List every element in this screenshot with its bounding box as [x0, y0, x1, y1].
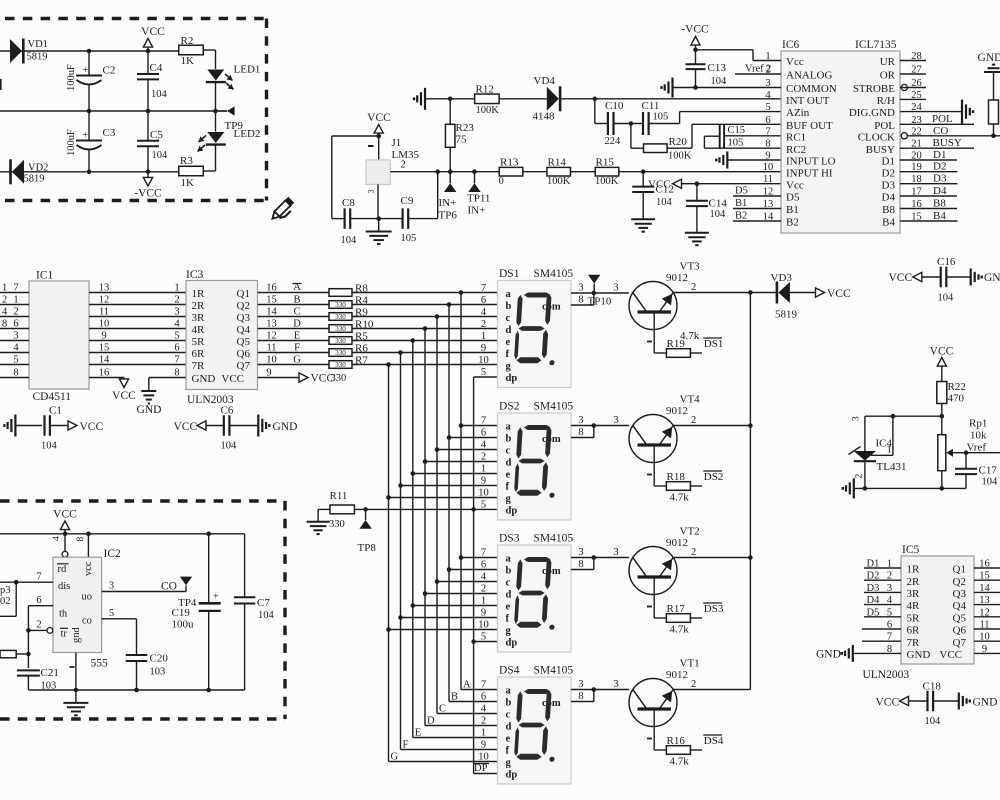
- svg-text:vcc: vcc: [83, 561, 94, 576]
- svg-text:1R: 1R: [192, 288, 206, 300]
- capacitor C15 105: [719, 124, 721, 149]
- svg-text:4: 4: [52, 536, 62, 541]
- svg-text:7: 7: [765, 126, 770, 137]
- IC2 pin2 tr wire with circle: [47, 628, 53, 634]
- svg-text:R22: R22: [948, 381, 966, 393]
- svg-text:VD3: VD3: [771, 272, 793, 284]
- svg-text:VCC: VCC: [876, 697, 900, 709]
- svg-text:C16: C16: [937, 256, 956, 268]
- svg-text:Q7: Q7: [237, 360, 251, 372]
- svg-text:J1: J1: [392, 137, 402, 149]
- wire com to transistor base: [594, 689, 629, 691]
- svg-text:10: 10: [979, 632, 990, 643]
- potentiometer Rp1 10k: [938, 435, 946, 471]
- svg-text:6: 6: [481, 560, 486, 571]
- svg-text:IC1: IC1: [36, 270, 54, 282]
- svg-text:6: 6: [481, 295, 486, 306]
- IC6 pin1 wire to -VCC node: [753, 60, 781, 62]
- svg-text:B2: B2: [786, 217, 799, 229]
- svg-text:tr: tr: [61, 629, 68, 640]
- com pins 3/8 join: [571, 425, 594, 427]
- svg-text:F: F: [403, 740, 409, 751]
- IC6 pin15 B4 wire: [900, 220, 958, 222]
- collector bus vertical: [749, 293, 751, 690]
- svg-text:ULN2003: ULN2003: [863, 669, 910, 681]
- IC6 pin2 Vref stub: [735, 73, 781, 75]
- svg-text:1: 1: [887, 445, 892, 456]
- svg-text:104: 104: [41, 441, 58, 452]
- wire VCC node to J1 and left loop: [376, 134, 381, 139]
- resistor R22 470: [937, 382, 947, 404]
- svg-text:com: com: [542, 566, 561, 577]
- svg-text:R3: R3: [180, 155, 193, 167]
- IC6 right pin wires 28-25: [900, 60, 926, 62]
- display DS3 SM4105 body: [498, 545, 572, 652]
- svg-text:ICL7135: ICL7135: [855, 39, 897, 51]
- IC2 pin5 co wire to C20: [102, 618, 137, 620]
- svg-text:3: 3: [109, 581, 114, 592]
- svg-text:6: 6: [174, 343, 179, 354]
- display DS2 SM4105 body: [498, 413, 572, 520]
- LED2: [215, 111, 217, 132]
- svg-text:CO: CO: [933, 125, 948, 137]
- svg-text:470: 470: [948, 393, 965, 405]
- svg-text:f: f: [506, 482, 510, 493]
- svg-text:B8: B8: [933, 198, 946, 210]
- svg-text:R2: R2: [181, 35, 194, 47]
- svg-text:10: 10: [763, 162, 774, 173]
- svg-text:4.7k: 4.7k: [670, 756, 690, 768]
- svg-text:a: a: [506, 289, 512, 300]
- svg-text:+: +: [83, 65, 89, 76]
- svg-text:105: 105: [728, 138, 744, 149]
- IC2 pin6 th wire: [28, 605, 53, 607]
- svg-text:B2: B2: [735, 211, 747, 222]
- svg-text:SM4105: SM4105: [534, 401, 574, 413]
- svg-text:7: 7: [481, 680, 486, 691]
- dp stub DS3: [474, 641, 498, 643]
- svg-text:3: 3: [613, 283, 618, 294]
- svg-text:8: 8: [578, 295, 583, 306]
- wire R15 to IC6 INPUT HI: [619, 171, 781, 173]
- svg-text:1K: 1K: [181, 55, 195, 67]
- svg-text:+: +: [213, 592, 219, 603]
- svg-text:R/H: R/H: [877, 95, 895, 107]
- capacitor C21 103: [17, 669, 40, 671]
- svg-text:B8: B8: [882, 204, 895, 216]
- svg-text:15: 15: [979, 571, 990, 582]
- svg-text:1: 1: [887, 559, 892, 570]
- svg-text:7R: 7R: [907, 637, 921, 649]
- wire +rail from VD1 to VCC node: [0, 50, 148, 52]
- svg-text:7R: 7R: [192, 360, 206, 372]
- svg-text:4.7k: 4.7k: [670, 624, 690, 636]
- svg-text:11: 11: [763, 174, 773, 185]
- svg-text:a: a: [506, 554, 512, 565]
- capacitor C19 100u electrolytic: [208, 534, 210, 602]
- svg-text:9: 9: [481, 343, 486, 354]
- IC6 pin21 BUSY wire: [900, 147, 974, 149]
- capacitor C7 104: [244, 534, 246, 598]
- svg-text:d: d: [506, 722, 512, 733]
- svg-text:13: 13: [979, 595, 990, 606]
- svg-text:AZin: AZin: [786, 107, 810, 119]
- svg-text:330: 330: [335, 313, 346, 321]
- pin1 tick of J1: [368, 145, 374, 147]
- svg-text:rd: rd: [58, 564, 67, 575]
- transistor VT3 9012: [629, 282, 677, 330]
- svg-text:dp: dp: [506, 373, 518, 384]
- svg-text:6: 6: [481, 428, 486, 439]
- svg-text:2: 2: [481, 584, 486, 595]
- test point TP11 IN+: [472, 169, 477, 174]
- svg-text:SM4105: SM4105: [534, 665, 574, 677]
- svg-text:D1: D1: [882, 156, 895, 168]
- svg-text:d: d: [506, 325, 512, 336]
- svg-text:IN+: IN+: [439, 197, 457, 209]
- svg-text:dp: dp: [506, 770, 518, 781]
- svg-text:10: 10: [478, 620, 489, 631]
- svg-text:2: 2: [691, 679, 696, 690]
- svg-text:10: 10: [478, 355, 489, 366]
- svg-text:IC6: IC6: [782, 39, 800, 51]
- resistor R12 100K: [475, 94, 500, 104]
- capacitor C14 104 with ground: [696, 184, 698, 201]
- svg-text:R16: R16: [667, 735, 686, 747]
- svg-text:IN+: IN+: [468, 205, 486, 217]
- svg-text:9: 9: [481, 608, 486, 619]
- svg-text:a: a: [506, 686, 512, 697]
- IC6 pin17 D4 wire: [900, 195, 957, 197]
- svg-text:5819: 5819: [24, 174, 45, 185]
- svg-text:INPUT HI: INPUT HI: [786, 167, 833, 179]
- svg-text:Q1: Q1: [237, 288, 250, 300]
- svg-text:4: 4: [481, 440, 487, 451]
- svg-text:3: 3: [578, 415, 583, 426]
- svg-text:d: d: [506, 590, 512, 601]
- emitter wire of VT3: [653, 313, 655, 353]
- svg-text:c: c: [506, 578, 511, 589]
- capacitor C12 104 with ground: [642, 172, 644, 187]
- svg-text:1: 1: [174, 283, 179, 294]
- svg-text:7: 7: [887, 632, 892, 643]
- svg-text:C19: C19: [172, 607, 191, 619]
- svg-text:5819: 5819: [27, 52, 48, 63]
- resistor R17 4.7k: [666, 614, 690, 623]
- svg-text:2: 2: [13, 307, 18, 318]
- svg-text:C4: C4: [150, 62, 163, 74]
- diode VD4 4148: [547, 87, 559, 111]
- svg-text:C17: C17: [979, 465, 998, 477]
- svg-text:7: 7: [481, 548, 486, 559]
- svg-text:1: 1: [481, 596, 486, 607]
- segment bus stubs into DS3: [461, 557, 498, 559]
- IC3 output wires to resistors: [258, 292, 330, 294]
- svg-text:C10: C10: [605, 100, 624, 112]
- svg-text:-VCC: -VCC: [134, 188, 162, 200]
- svg-text:com: com: [542, 698, 561, 709]
- svg-text:R12: R12: [476, 84, 494, 96]
- svg-text:100K: 100K: [668, 151, 692, 162]
- svg-text:OR: OR: [880, 70, 896, 82]
- svg-text:7: 7: [481, 283, 486, 294]
- svg-text:dp: dp: [506, 506, 518, 517]
- svg-text:8: 8: [2, 319, 7, 330]
- wire R22 to Rp1: [941, 416, 943, 435]
- dashed border of power-supply section: [5, 17, 267, 20]
- svg-text:4R: 4R: [907, 600, 921, 612]
- IC6 pin20 D1 wire: [900, 159, 957, 161]
- svg-text:3: 3: [613, 679, 618, 690]
- svg-text:2: 2: [887, 571, 892, 582]
- svg-text:Q7: Q7: [953, 637, 967, 649]
- svg-text:5R: 5R: [907, 612, 921, 624]
- svg-text:COMMON: COMMON: [786, 83, 837, 95]
- svg-text:e: e: [506, 470, 511, 481]
- svg-text:VCC: VCC: [889, 272, 913, 284]
- svg-text:9012: 9012: [666, 405, 688, 417]
- svg-text:6R: 6R: [907, 625, 921, 637]
- svg-text:TP6: TP6: [439, 210, 458, 222]
- svg-text:330: 330: [335, 325, 346, 333]
- svg-text:2: 2: [481, 452, 486, 463]
- svg-text:GND: GND: [973, 697, 998, 709]
- test point TP6 IN+: [448, 169, 453, 174]
- svg-text:1: 1: [481, 331, 486, 342]
- svg-text:C13: C13: [708, 62, 727, 74]
- IC IC1 CD4511 body: [29, 281, 89, 389]
- wire R12 to VD4: [499, 98, 547, 100]
- emitter wire of VT4: [653, 446, 655, 486]
- svg-text:B1: B1: [735, 198, 747, 209]
- svg-text:VCC: VCC: [221, 373, 244, 385]
- collector wire of VT4: [673, 425, 750, 427]
- svg-text:GND: GND: [816, 649, 841, 661]
- DS2 seven-segment digit: [514, 425, 559, 498]
- svg-text:5: 5: [481, 632, 486, 643]
- svg-text:a: a: [506, 422, 512, 433]
- svg-text:Vcc: Vcc: [786, 179, 804, 191]
- svg-text:SM4105: SM4105: [534, 268, 574, 280]
- svg-text:dp: dp: [506, 638, 518, 649]
- svg-text:CD4511: CD4511: [33, 391, 72, 403]
- svg-text:Q4: Q4: [237, 324, 251, 336]
- svg-text:2: 2: [691, 547, 696, 558]
- svg-text:VT4: VT4: [680, 394, 701, 406]
- svg-text:C18: C18: [923, 681, 942, 693]
- IC6 pin22 CLOCK/CO wire: [901, 133, 907, 139]
- svg-text:VT1: VT1: [680, 658, 700, 670]
- svg-text:100uF: 100uF: [66, 129, 77, 156]
- segment bus stubs into DS4: [461, 689, 498, 691]
- svg-text:8: 8: [578, 427, 583, 438]
- svg-text:3: 3: [13, 331, 18, 342]
- svg-text:LED2: LED2: [234, 128, 261, 140]
- svg-text:D3: D3: [867, 583, 880, 594]
- svg-text:B: B: [451, 692, 458, 703]
- 555 bottom rail: [28, 689, 244, 691]
- svg-text:C: C: [439, 704, 446, 715]
- capacitor C2 100uF: [88, 51, 90, 76]
- svg-text:D3: D3: [933, 173, 947, 185]
- svg-text:R13: R13: [500, 157, 519, 169]
- capacitor C10 224: [607, 112, 609, 135]
- svg-text:104: 104: [258, 610, 275, 621]
- resistor R20 100K: [644, 144, 668, 153]
- resistor R21 vertical: [989, 100, 999, 124]
- svg-text:75: 75: [456, 134, 468, 146]
- svg-text:D4: D4: [867, 595, 881, 606]
- svg-text:G: G: [391, 752, 399, 763]
- svg-text:R11: R11: [330, 490, 348, 502]
- segment bus verticals a-g: [460, 293, 462, 690]
- sensor J1 LM35: [366, 160, 391, 185]
- svg-text:Q5: Q5: [237, 336, 251, 348]
- resistor R18 4.7k: [666, 482, 690, 491]
- svg-text:100K: 100K: [547, 176, 571, 187]
- ground at IC3 pin8: [149, 377, 186, 379]
- svg-text:6: 6: [887, 620, 892, 631]
- svg-text:6R: 6R: [192, 348, 206, 360]
- IC IC5 ULN2003 body: [901, 556, 974, 664]
- IC6 pin14 B2 stub: [733, 220, 781, 222]
- IC IC2 555 body: [53, 557, 102, 652]
- test point TP4: [180, 577, 192, 586]
- svg-text:C21: C21: [41, 667, 59, 679]
- svg-text:DS3: DS3: [704, 603, 724, 615]
- svg-text:C11: C11: [642, 100, 660, 112]
- svg-text:3: 3: [852, 416, 862, 421]
- svg-text:VCC: VCC: [141, 26, 165, 38]
- IC1 left pin wires: [0, 292, 29, 294]
- svg-text:co: co: [82, 616, 92, 627]
- capacitor C8 104: [344, 208, 346, 229]
- svg-text:104: 104: [656, 197, 673, 208]
- svg-text:p3: p3: [0, 585, 11, 596]
- svg-text:8: 8: [578, 559, 583, 570]
- svg-text:INPUT LO: INPUT LO: [786, 156, 836, 168]
- svg-text:BUSY: BUSY: [933, 137, 962, 149]
- svg-text:6: 6: [765, 115, 770, 126]
- capacitor C3 100uF: [88, 111, 90, 141]
- wire C9 rail up to signal row: [437, 172, 439, 219]
- dp stub DS1: [474, 376, 498, 378]
- capacitor C9 105: [379, 218, 403, 220]
- emitter wire of VT2: [653, 578, 655, 618]
- emitter wire of VT1: [653, 710, 655, 750]
- ground at R12: [424, 88, 426, 110]
- svg-text:5: 5: [174, 331, 179, 342]
- DS4 seven-segment digit: [514, 689, 559, 762]
- svg-text:5: 5: [887, 607, 892, 618]
- svg-text:11: 11: [979, 620, 989, 631]
- capacitor C11 105: [642, 112, 644, 135]
- dp stub DS4 with DP label: [474, 773, 498, 775]
- IC5 right pin wires: [974, 567, 1000, 569]
- svg-text:IC3: IC3: [186, 269, 204, 281]
- svg-text:b: b: [506, 301, 512, 312]
- pencil icon: [269, 197, 296, 224]
- svg-text:D2: D2: [933, 161, 946, 173]
- svg-text:330: 330: [329, 519, 345, 530]
- svg-text:1K: 1K: [181, 177, 195, 189]
- svg-text:10: 10: [478, 488, 489, 499]
- collector wire of VT2: [673, 557, 750, 559]
- svg-text:9012: 9012: [666, 272, 688, 284]
- wire RC2 row with step to C15: [704, 147, 781, 149]
- svg-text:104: 104: [152, 150, 169, 161]
- capacitor C4 104: [147, 51, 149, 74]
- svg-text:CLOCK: CLOCK: [858, 131, 895, 143]
- svg-text:3: 3: [613, 547, 618, 558]
- svg-text:3: 3: [887, 583, 892, 594]
- svg-text:VCC: VCC: [112, 390, 136, 402]
- svg-text:+: +: [83, 130, 89, 141]
- resistor R16 4.7k: [666, 746, 690, 755]
- svg-text:5: 5: [481, 500, 486, 511]
- svg-text:VCC: VCC: [930, 346, 954, 358]
- svg-text:-VCC: -VCC: [681, 24, 709, 36]
- svg-text:4.7k: 4.7k: [670, 492, 690, 504]
- svg-text:DS3: DS3: [499, 533, 520, 545]
- IC5 left pin wires with D1-D5 labels: [864, 567, 901, 569]
- wire com to transistor base: [594, 292, 629, 294]
- svg-text:b: b: [506, 434, 512, 445]
- svg-text:2: 2: [691, 415, 696, 426]
- svg-text:VD2: VD2: [28, 163, 48, 174]
- svg-text:8: 8: [765, 139, 770, 150]
- svg-text:104: 104: [925, 716, 942, 727]
- com pins 3/8 join: [571, 292, 594, 294]
- wire C10 to C11: [614, 123, 644, 125]
- svg-text:C9: C9: [401, 195, 414, 207]
- svg-text:f: f: [506, 349, 510, 360]
- svg-text:4: 4: [2, 307, 8, 318]
- wire C11 up to AZin: [649, 123, 680, 125]
- svg-text:c: c: [506, 446, 511, 457]
- transistor VT2 9012: [629, 547, 677, 595]
- svg-text:Rp1: Rp1: [969, 418, 987, 430]
- svg-text:7: 7: [36, 572, 41, 583]
- ground at INPUT LO: [726, 152, 728, 169]
- svg-text:D5: D5: [786, 192, 800, 204]
- svg-text:5: 5: [765, 102, 770, 113]
- svg-text:2: 2: [36, 620, 41, 631]
- svg-text:c: c: [506, 710, 511, 721]
- svg-text:VCC: VCC: [367, 112, 391, 124]
- resistor R15 100K: [595, 167, 619, 176]
- svg-text:330: 330: [335, 349, 346, 357]
- svg-text:5: 5: [109, 608, 114, 619]
- 555 top supply wire: [0, 533, 245, 535]
- svg-text:TL431: TL431: [877, 461, 907, 473]
- wire com to transistor base: [594, 557, 629, 559]
- svg-text:DS2: DS2: [704, 471, 724, 483]
- junction dots on PSU rails: [87, 49, 92, 54]
- svg-text:RC1: RC1: [786, 131, 806, 143]
- IC3 pin9 VCC wire: [258, 377, 300, 379]
- svg-text:POL: POL: [874, 120, 895, 132]
- svg-text:dis: dis: [58, 581, 70, 592]
- svg-text:5: 5: [13, 355, 18, 366]
- svg-text:UR: UR: [880, 56, 896, 68]
- wire R17 to DS3 net label: [690, 617, 702, 619]
- svg-text:Vref: Vref: [745, 64, 764, 75]
- IC6 pin3 COMMON wire with ground: [671, 78, 673, 98]
- svg-text:g: g: [506, 494, 512, 505]
- svg-text:9012: 9012: [666, 537, 688, 549]
- svg-text:Q6: Q6: [237, 348, 251, 360]
